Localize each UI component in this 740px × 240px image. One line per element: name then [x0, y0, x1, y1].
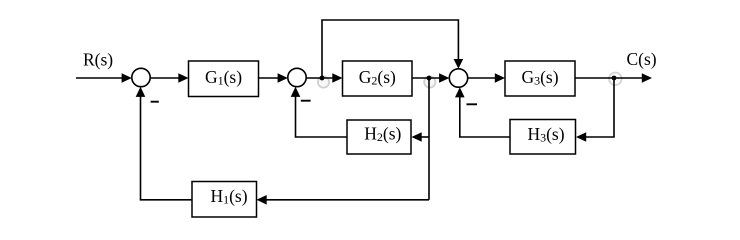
svg-text:G2(s): G2(s) — [359, 67, 396, 88]
block H3 — [510, 120, 576, 155]
svg-text:G1(s): G1(s) — [205, 67, 242, 88]
summing junction S3 — [449, 69, 467, 87]
summing junction S2 — [288, 68, 306, 86]
node B (takeoff after G2, dot) — [427, 76, 432, 81]
summing junction S1 — [132, 68, 150, 86]
wire S2 to G2 — [306, 73, 342, 83]
node R label — [83, 50, 113, 70]
block G1 — [189, 61, 259, 97]
minus sign at S3 — [467, 103, 478, 105]
node C (output takeoff, dot) — [612, 76, 617, 81]
node A (takeoff after S2, dot) — [320, 76, 325, 81]
wire S3 to G3 — [468, 73, 505, 83]
wire G1 to summer S2 — [259, 73, 288, 83]
wire G2 to summer S3 — [412, 73, 449, 83]
wire node C down to H3 input — [576, 78, 614, 142]
svg-text:H1(s): H1(s) — [210, 186, 247, 207]
wire H3 output to S3 — [455, 87, 510, 137]
node C label — [627, 49, 657, 69]
minus sign at S1 — [151, 101, 159, 103]
minus sign at S2 — [301, 100, 311, 102]
wire G3 to output C(s) — [575, 73, 652, 83]
wire node B line into H1 input — [257, 195, 430, 205]
wire S1 to G1 — [150, 73, 188, 83]
wire H1 output to S1 — [136, 87, 192, 200]
wire input R(s) to summer S1 — [76, 73, 132, 83]
ghost ring at node B — [424, 76, 435, 87]
ghost ring at node A — [318, 76, 329, 87]
wire branch into H2 input — [412, 132, 430, 142]
wire node B down (to H2 and H1 level) — [428, 78, 430, 200]
block H1 — [192, 182, 257, 218]
block G2 — [343, 61, 413, 96]
svg-text:C(s): C(s) — [627, 49, 657, 69]
svg-text:R(s): R(s) — [83, 50, 113, 70]
svg-text:G3(s): G3(s) — [521, 67, 558, 88]
ghost ring at node C — [609, 73, 622, 86]
wire H2 output to S2 — [291, 87, 347, 137]
wire feedforward top loop node A to S3 — [322, 20, 463, 78]
block G3 — [505, 61, 575, 96]
svg-text:H3(s): H3(s) — [527, 124, 564, 145]
block H2 — [347, 120, 411, 154]
svg-text:H2(s): H2(s) — [364, 124, 401, 145]
